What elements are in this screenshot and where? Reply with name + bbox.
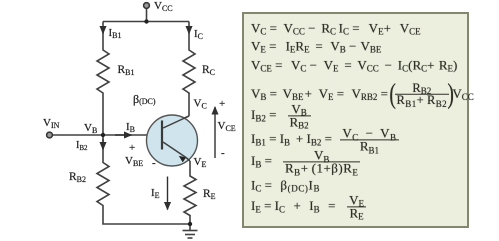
svg-text:VB: VB bbox=[84, 122, 97, 135]
svg-text:VIN: VIN bbox=[43, 117, 60, 130]
svg-text:IC: IC bbox=[194, 28, 203, 41]
svg-text:IE: IE bbox=[151, 187, 160, 200]
svg-text:RB1: RB1 bbox=[118, 64, 135, 77]
svg-text:VCE: VCE bbox=[218, 120, 236, 133]
svg-text:+: + bbox=[129, 142, 135, 154]
svg-text:VCC: VCC bbox=[154, 0, 173, 13]
svg-text:-: - bbox=[152, 157, 156, 169]
svg-text:VBE: VBE bbox=[125, 155, 143, 168]
svg-text:+: + bbox=[219, 98, 225, 110]
svg-text:RC: RC bbox=[202, 64, 215, 77]
svg-text:VC: VC bbox=[194, 98, 207, 111]
svg-text:β(DC): β(DC) bbox=[133, 92, 156, 106]
svg-text:IB: IB bbox=[126, 121, 135, 134]
svg-text:-: - bbox=[221, 147, 225, 159]
svg-text:VE: VE bbox=[194, 156, 207, 169]
svg-text:RB2: RB2 bbox=[69, 171, 86, 184]
svg-text:IB2: IB2 bbox=[76, 140, 88, 152]
svg-text:IB1: IB1 bbox=[109, 27, 122, 40]
svg-text:RE: RE bbox=[203, 188, 216, 201]
